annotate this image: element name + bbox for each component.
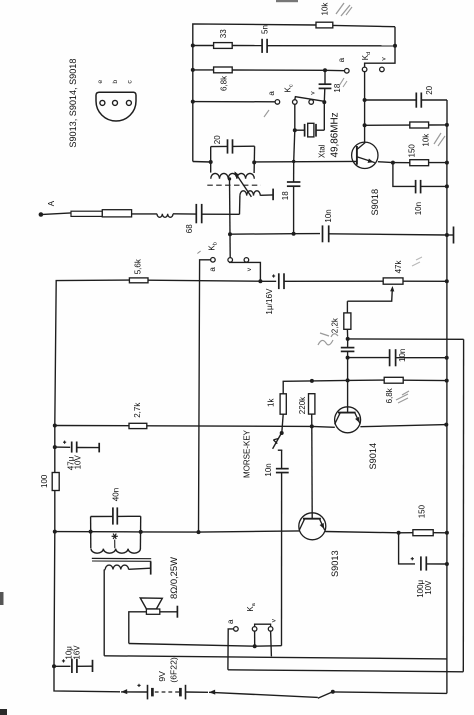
- svg-text:150: 150: [408, 144, 417, 158]
- svg-text:Xtal: Xtal: [318, 144, 327, 158]
- svg-text:S9013, S9014, S9018: S9013, S9014, S9018: [68, 59, 78, 148]
- svg-text:10k: 10k: [321, 2, 330, 16]
- svg-text:v: v: [310, 91, 317, 95]
- svg-text:49,86MHz: 49,86MHz: [329, 112, 340, 157]
- svg-text:20: 20: [425, 85, 434, 94]
- svg-text:(6F22): (6F22): [169, 657, 179, 682]
- svg-text:40n: 40n: [112, 488, 121, 501]
- svg-text:2,2k: 2,2k: [331, 317, 340, 333]
- svg-text:e: e: [97, 80, 104, 84]
- svg-text:8Ω/0,25W: 8Ω/0,25W: [168, 557, 179, 599]
- svg-text:MORSE-KEY: MORSE-KEY: [242, 429, 251, 478]
- svg-text:47k: 47k: [394, 260, 403, 274]
- svg-text:v: v: [270, 618, 277, 622]
- svg-text:16V: 16V: [73, 645, 82, 660]
- svg-text:2,7k: 2,7k: [133, 402, 142, 418]
- svg-text:6,8k: 6,8k: [220, 75, 229, 91]
- svg-text:S9014: S9014: [368, 443, 378, 470]
- svg-text:A: A: [47, 200, 56, 206]
- svg-text:a: a: [337, 57, 346, 62]
- svg-text:10n: 10n: [398, 349, 407, 362]
- svg-text:9V: 9V: [157, 671, 167, 682]
- svg-text:10n: 10n: [414, 202, 423, 215]
- svg-text:a: a: [226, 619, 235, 624]
- svg-text:5,6k: 5,6k: [134, 258, 143, 274]
- svg-text:6,8k: 6,8k: [385, 387, 394, 403]
- svg-text:10n: 10n: [264, 463, 273, 476]
- svg-text:a: a: [208, 267, 217, 272]
- svg-text:1k: 1k: [267, 398, 276, 407]
- svg-text:220k: 220k: [298, 396, 307, 414]
- svg-text:68: 68: [185, 224, 194, 233]
- svg-text:S9018: S9018: [370, 189, 380, 216]
- svg-text:b: b: [112, 80, 119, 84]
- svg-text:v: v: [381, 57, 388, 61]
- svg-text:10n: 10n: [324, 209, 333, 222]
- svg-text:100: 100: [40, 474, 49, 488]
- svg-text:33: 33: [219, 29, 228, 38]
- svg-text:a: a: [267, 91, 276, 96]
- svg-text:5n: 5n: [261, 25, 270, 34]
- svg-text:1μ/16V: 1μ/16V: [265, 288, 274, 315]
- svg-text:18: 18: [281, 191, 290, 200]
- svg-text:10V: 10V: [424, 580, 433, 595]
- svg-text:c: c: [126, 80, 133, 84]
- svg-text:S9013: S9013: [330, 550, 340, 577]
- svg-text:v: v: [246, 267, 253, 271]
- svg-text:20: 20: [213, 135, 222, 144]
- svg-text:10k: 10k: [421, 133, 430, 147]
- svg-text:150: 150: [418, 504, 427, 518]
- svg-text:10V: 10V: [74, 455, 83, 470]
